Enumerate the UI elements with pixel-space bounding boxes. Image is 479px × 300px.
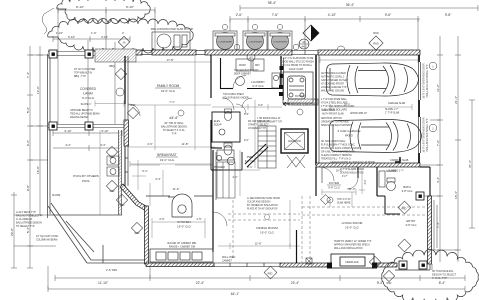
garage north wall — [318, 50, 420, 55]
svg-text:9'-8" CLG: 9'-8" CLG — [402, 190, 413, 193]
svg-text:R6D: R6D — [268, 273, 273, 276]
svg-text:PLATE AT 3/4 AT GROUP OF: PLATE AT 3/4 AT GROUP OF — [247, 208, 278, 211]
svg-text:GARAGE FINISH FLOOR ELEV. AT D: GARAGE FINISH FLOOR ELEV. AT DOOR — [330, 161, 375, 164]
svg-text:SLAB HERE: SLAB HERE — [337, 202, 351, 205]
shelf note below — [223, 94, 249, 100]
family room dim verticals — [128, 56, 215, 150]
svg-text:CONDENSER: CONDENSER — [218, 42, 232, 44]
upstand beam note — [70, 109, 100, 119]
condenser unit 3 — [268, 31, 292, 51]
door tag circle — [178, 110, 184, 116]
kitchen north counter — [146, 195, 170, 197]
condenser slab A — [152, 32, 190, 50]
svg-text:4'-6": 4'-6" — [147, 142, 153, 146]
living room label — [342, 221, 363, 230]
svg-text:5'-6": 5'-6" — [26, 107, 30, 113]
svg-text:4"x7": 4"x7" — [342, 175, 348, 178]
south wall dining windows — [214, 263, 280, 267]
svg-text:19'-0" CLG: 19'-0" CLG — [260, 231, 274, 235]
elevator shaft — [281, 129, 308, 153]
svg-text:9'-4" CLG: 9'-4" CLG — [252, 84, 263, 88]
entry diamond — [398, 201, 411, 214]
svg-text:98'-4": 98'-4" — [268, 1, 277, 5]
jamb blacks — [279, 85, 283, 89]
bottom dim labels — [98, 281, 446, 296]
svg-text:11'-6": 11'-6" — [173, 187, 180, 191]
svg-text:W/ 6X6 - W1.4xW1.4 WWM 2" SAND: W/ 6X6 - W1.4xW1.4 WWM 2" SAND — [321, 147, 360, 150]
svg-text:FLR SLAB MIN 4" THICK CONC: FLR SLAB MIN 4" THICK CONC — [321, 144, 355, 147]
fridge — [217, 150, 234, 160]
window tag circles — [234, 44, 240, 50]
svg-text:1'-0": 1'-0" — [91, 31, 97, 35]
elevator chevron below — [287, 155, 305, 168]
svg-text:AUTH FRONT SLAB: AUTH FRONT SLAB — [322, 113, 344, 116]
svg-text:19'-0" CLG: 19'-0" CLG — [345, 226, 359, 230]
svg-text:OR 6 MIL VAPOR BARRIER ON: OR 6 MIL VAPOR BARRIER ON — [321, 151, 355, 154]
svg-text:RAILING DETAIL: RAILING DETAIL — [70, 116, 89, 119]
breakfast width dim — [130, 161, 211, 167]
car 1 — [327, 63, 419, 96]
kitchen dims — [152, 218, 205, 238]
svg-text:R6D: R6D — [401, 208, 406, 211]
foyer east dim — [359, 170, 365, 194]
outdoor kitchen hatch counter — [95, 49, 136, 62]
svg-text:TEMP TO VERIFY 12" UNDER TYP: TEMP TO VERIFY 12" UNDER TYP — [334, 241, 372, 243]
svg-text:DEEP CABINET: DEEP CABINET — [234, 73, 251, 76]
svg-text:9'-8": 9'-8" — [445, 13, 452, 17]
garage mid notes — [322, 109, 344, 116]
svg-text:1: 1 — [432, 65, 434, 69]
svg-text:xx DECORATIVE HANG HOOD: xx DECORATIVE HANG HOOD — [247, 197, 280, 200]
svg-text:SPECS FOR EACH APPROX: SPECS FOR EACH APPROX — [321, 124, 352, 127]
lanai dims under beam — [53, 130, 122, 151]
svg-text:ENTRY: ENTRY — [406, 219, 415, 223]
svg-text:19'-0" CLG: 19'-0" CLG — [161, 89, 176, 93]
svg-text:4" O.AL. TYP: 4" O.AL. TYP — [432, 277, 447, 280]
bar counter hatch — [288, 99, 318, 105]
svg-text:R6D: R6D — [110, 190, 115, 193]
svg-text:3 CAR GARAGE: 3 CAR GARAGE — [337, 129, 360, 133]
svg-text:20'-0": 20'-0" — [344, 104, 350, 107]
svg-text:ON 4 1/2 PRIOR TO INSTALL: ON 4 1/2 PRIOR TO INSTALL — [281, 64, 313, 67]
svg-text:1 TYP CAR STEM WALL: 1 TYP CAR STEM WALL — [321, 98, 348, 101]
svg-text:21'-0": 21'-0" — [349, 187, 356, 191]
svg-text:5'-10": 5'-10" — [68, 35, 75, 39]
svg-text:WALL SHUT: WALL SHUT — [322, 109, 336, 112]
pantry shelves — [217, 162, 235, 198]
svg-text:COVERED: COVERED — [80, 87, 96, 91]
svg-text:WASH: WASH — [239, 64, 246, 67]
hall dims — [212, 100, 282, 168]
living dims — [330, 192, 352, 207]
fireplace — [331, 254, 374, 268]
svg-text:7'-6": 7'-6" — [436, 140, 440, 146]
svg-text:EQUIP: EQUIP — [214, 124, 222, 127]
right dim labels — [436, 84, 472, 228]
garage door labels — [423, 63, 430, 153]
svg-text:9'-8" CLG: 9'-8" CLG — [328, 186, 340, 190]
R6D diamond top right — [369, 31, 383, 50]
svg-text:4'-10": 4'-10" — [328, 13, 337, 17]
stair note — [248, 120, 270, 130]
svg-text:INSULATED SECTIONAL TYP: INSULATED SECTIONAL TYP — [426, 118, 429, 151]
dim line top row2 — [230, 16, 420, 50]
svg-text:2'-6" MIN: 2'-6" MIN — [106, 268, 117, 272]
south wall living hatched — [280, 263, 328, 267]
svg-text:#4'-6": #4'-6" — [169, 116, 179, 120]
svg-text:R6D: R6D — [135, 232, 140, 235]
laundry door arc + sink — [233, 76, 246, 89]
svg-text:CLEAN COMPACT TERMITE: CLEAN COMPACT TERMITE — [321, 154, 352, 157]
top exterior wall segments — [126, 50, 142, 55]
garage east wall and doors — [419, 55, 421, 167]
svg-text:AT DESIGN TYP: AT DESIGN TYP — [248, 127, 266, 130]
entry steps right — [434, 200, 437, 250]
svg-text:TO SELECT TYP: TO SELECT TYP — [16, 225, 35, 228]
svg-text:21'-4": 21'-4" — [454, 96, 458, 104]
svg-text:WALLS AND CEILING: WALLS AND CEILING — [321, 90, 344, 93]
marker diamond 1A — [118, 36, 129, 47]
svg-text:PATIO: PATIO — [345, 134, 354, 138]
svg-text:BY OWNER W/ INSULATION: BY OWNER W/ INSULATION — [247, 204, 278, 207]
svg-text:CABINET: CABINET — [222, 260, 233, 263]
leader scribble top-left — [42, 8, 54, 34]
foyer — [316, 167, 358, 196]
svg-text:2': 2' — [122, 31, 125, 35]
golf cart bay — [283, 72, 313, 103]
svg-text:OPERATOR TO PROVIDE: OPERATOR TO PROVIDE — [321, 121, 349, 124]
svg-text:CONDENSER: CONDENSER — [273, 42, 287, 44]
svg-text:7'-1": 7'-1" — [169, 100, 175, 104]
elev equip room — [212, 112, 240, 142]
cloud text — [432, 270, 457, 280]
dining note block — [247, 197, 280, 211]
dining dim lines — [218, 200, 300, 249]
svg-text:9'-6": 9'-6" — [385, 13, 392, 17]
family room note — [161, 116, 187, 136]
svg-text:4'-3": 4'-3" — [100, 143, 106, 147]
kitchen west wall — [145, 206, 149, 264]
svg-text:AUTOMATED CLOSER: AUTOMATED CLOSER — [321, 72, 346, 75]
tag circle A3 — [247, 53, 255, 61]
svg-text:18'-4": 18'-4" — [454, 191, 458, 199]
svg-text:RANGE + CABINET DW: RANGE + CABINET DW — [169, 246, 196, 249]
condenser unit 2 — [243, 31, 267, 51]
svg-text:12'-8": 12'-8" — [255, 242, 262, 246]
south wall kitchen segment — [146, 263, 214, 267]
svg-text:2'-6": 2'-6" — [159, 217, 164, 221]
svg-text:8'-10": 8'-10" — [126, 5, 134, 9]
washer dryer — [236, 59, 280, 88]
svg-text:GARAGE SLAB: GARAGE SLAB — [388, 102, 405, 105]
shaft note — [257, 117, 283, 124]
gallery dims — [222, 150, 260, 196]
dining-living separator wall — [296, 230, 298, 263]
svg-text:SLOPE: SLOPE — [52, 194, 61, 197]
svg-text:36'-4": 36'-4" — [346, 3, 355, 7]
diagonal wall breakfast corner — [120, 184, 146, 211]
svg-text:PRE-CONSTRUCTED SLAB ON TOP: PRE-CONSTRUCTED SLAB ON TOP — [151, 28, 194, 31]
svg-text:8'-10": 8'-10" — [76, 5, 84, 9]
svg-text:ADDITION OPTION: ADDITION OPTION — [321, 117, 342, 120]
lanai top beam — [48, 52, 126, 56]
svg-text:DRY: DRY — [255, 65, 260, 67]
svg-text:AUTOMATIC LEVEL 2: AUTOMATIC LEVEL 2 — [321, 76, 345, 79]
kitchen east wall — [213, 150, 216, 252]
west wall family room — [125, 56, 128, 120]
svg-text:DINING ROOM: DINING ROOM — [256, 226, 278, 230]
svg-text:7'-4": 7'-4" — [436, 222, 440, 228]
svg-text:LIVING ROOM: LIVING ROOM — [342, 221, 363, 225]
living tags — [327, 197, 333, 203]
svg-text:POWDER: POWDER — [214, 166, 225, 169]
svg-text:FAMILY ROOM: FAMILY ROOM — [157, 84, 180, 88]
svg-text:TOP AND BOTTOM 36": TOP AND BOTTOM 36" — [234, 69, 259, 72]
garage L bracket — [395, 157, 400, 162]
lanai counter note — [74, 68, 96, 78]
lanai wall tags — [115, 68, 126, 79]
revision cloud top 1 — [57, 0, 150, 24]
garage top dim — [320, 57, 418, 63]
cloud diamonds — [369, 256, 380, 267]
covered lanai label — [80, 87, 96, 100]
garage west wall — [316, 55, 319, 165]
west wall hatched segment — [124, 120, 129, 146]
cloud 1 dims — [58, 7, 155, 124]
svg-text:FOYER: FOYER — [329, 181, 340, 185]
svg-text:R6D: R6D — [373, 31, 378, 35]
svg-text:5'-10": 5'-10" — [101, 129, 108, 133]
svg-text:GOLF CART: GOLF CART — [289, 68, 304, 71]
svg-text:CONDENSER: CONDENSER — [248, 42, 262, 44]
svg-text:POOL BY OTHERS: POOL BY OTHERS — [73, 174, 98, 178]
lanai bottom beam — [48, 125, 124, 128]
svg-text:APPROX SPAN PER FEE SPECS: APPROX SPAN PER FEE SPECS — [334, 244, 370, 247]
breakfast left dims — [132, 160, 146, 190]
family top dim — [128, 59, 211, 65]
lanai west edge — [48, 54, 51, 218]
svg-text:R6D: R6D — [373, 42, 378, 46]
svg-text:37'-4": 37'-4" — [468, 160, 472, 168]
bath label — [402, 185, 413, 193]
door swing arcs — [222, 98, 234, 110]
condenser unit 1 — [213, 31, 237, 51]
section marker diamond A6/A4.2 — [299, 25, 319, 49]
RWD diamond kitchen wall — [131, 222, 142, 233]
entry east walls — [420, 167, 430, 196]
svg-text:19'-0" CLG: 19'-0" CLG — [160, 158, 175, 162]
svg-text:1A: 1A — [122, 42, 125, 45]
cloud 2 dims — [53, 36, 130, 42]
svg-text:11'-8": 11'-8" — [182, 142, 189, 146]
svg-text:BREAKFAST: BREAKFAST — [157, 153, 176, 157]
powder room walls — [211, 148, 242, 170]
left annotation block — [16, 211, 42, 228]
svg-text:9'-8": 9'-8" — [26, 185, 30, 191]
svg-text:LOADED GARAGE TYP: LOADED GARAGE TYP — [321, 86, 347, 89]
pool step diagonals — [48, 203, 146, 263]
dim lines bottom — [48, 266, 465, 292]
column marker X on wall — [306, 258, 312, 264]
bath fixtures — [379, 171, 396, 191]
svg-text:9'-0": 9'-0" — [244, 139, 249, 142]
laundry walls — [220, 56, 284, 100]
svg-text:INSULATED SECTIONAL TYP: INSULATED SECTIONAL TYP — [426, 64, 429, 97]
lanai columns bottom row — [49, 122, 57, 130]
svg-text:FIREPLACE: FIREPLACE — [345, 261, 359, 264]
svg-text:7'-6": 7'-6" — [272, 13, 279, 17]
svg-text:BBQ - TYP: BBQ - TYP — [74, 75, 86, 78]
svg-text:LAUNDRY: LAUNDRY — [251, 80, 265, 84]
svg-text:1" TYP SLAB: 1" TYP SLAB — [385, 112, 400, 115]
clg dashed lines living — [302, 196, 427, 262]
svg-text:R6D: R6D — [387, 282, 392, 285]
svg-text:19'-0" CLG: 19'-0" CLG — [177, 225, 191, 229]
svg-text:A6: A6 — [302, 40, 306, 44]
svg-text:BBQ: BBQ — [109, 65, 114, 68]
svg-text:A4.2: A4.2 — [301, 45, 307, 49]
svg-text:APRON MIN 12": APRON MIN 12" — [350, 112, 367, 115]
svg-text:5'-1": 5'-1" — [244, 112, 249, 116]
lanai columns top row — [49, 50, 57, 58]
dim line top outer 36-4 — [240, 5, 478, 11]
svg-text:2'-6": 2'-6" — [236, 13, 243, 17]
svg-text:GOOD WALL STUCCO FINISH: GOOD WALL STUCCO FINISH — [281, 61, 314, 64]
svg-text:ELEVATOR: ELEVATOR — [288, 140, 301, 143]
arrow below bay — [283, 102, 290, 106]
car 2 — [330, 120, 422, 153]
svg-text:CAR CHARGER OUTLET: CAR CHARGER OUTLET — [321, 79, 349, 82]
svg-text:5'-1": 5'-1" — [142, 169, 148, 173]
svg-text:4 1/2" CTL SLAB ROPE TO BE: 4 1/2" CTL SLAB ROPE TO BE — [281, 57, 314, 60]
pool outline — [119, 130, 122, 215]
svg-text:SLOPED: SLOPED — [386, 170, 396, 173]
svg-text:LANAI: LANAI — [83, 92, 92, 96]
bottom right columns — [399, 261, 407, 269]
kitchen label — [177, 220, 191, 229]
svg-text:BATH: BATH — [403, 185, 410, 189]
svg-text:3'-0": 3'-0" — [258, 103, 263, 107]
svg-text:1'-10": 1'-10" — [56, 31, 63, 35]
top dim labels — [236, 1, 452, 17]
R6D diamonds on west wall — [106, 146, 117, 157]
dining ceiling dashes — [228, 200, 300, 260]
foyer door arc — [320, 167, 334, 181]
cabinet note — [234, 69, 259, 76]
svg-text:23'-4": 23'-4" — [291, 281, 300, 285]
svg-text:AT SIDE AND FRONT: AT SIDE AND FRONT — [321, 83, 345, 86]
dim lines right — [421, 36, 475, 262]
svg-text:8'-4": 8'-4" — [439, 281, 446, 285]
dining room label — [256, 226, 278, 235]
garage south wall — [316, 163, 420, 167]
svg-text:PROVIDE CURB STOP: PROVIDE CURB STOP — [291, 105, 316, 107]
revision cloud bottom right — [382, 249, 479, 300]
svg-text:POOL: POOL — [82, 179, 90, 183]
svg-text:9'-8" CLG: 9'-8" CLG — [406, 224, 417, 227]
svg-text:TOP LINING SHELF: TOP LINING SHELF — [223, 94, 245, 96]
svg-text:SIL SIDE 4 INCH WALL: SIL SIDE 4 INCH WALL — [321, 140, 346, 143]
breakfast dims — [131, 165, 213, 206]
family room label — [157, 84, 180, 93]
lanai mid dim — [95, 101, 124, 107]
svg-text:64'-1": 64'-1" — [231, 292, 240, 296]
family west door arc — [128, 104, 140, 116]
living note — [334, 241, 372, 250]
svg-text:TYP: TYP — [172, 133, 177, 136]
kitchen range arch — [168, 194, 192, 217]
svg-text:1'-5": 1'-5" — [196, 217, 201, 221]
railing bottom right — [395, 264, 430, 270]
svg-text:TREATED FILL - TYP U.N.O.: TREATED FILL - TYP U.N.O. — [321, 158, 352, 161]
stair run — [258, 126, 276, 168]
svg-text:15'-8": 15'-8" — [36, 166, 40, 174]
svg-text:SLOPE 1": SLOPE 1" — [81, 103, 92, 106]
svg-text:29'-8": 29'-8" — [10, 228, 14, 236]
svg-text:12'-6": 12'-6" — [36, 86, 40, 94]
svg-text:11'-10": 11'-10" — [98, 281, 109, 285]
left dim labels — [10, 72, 40, 236]
laundry east jambs — [280, 66, 284, 70]
kitchen island counter — [150, 249, 213, 262]
svg-text:6'-10": 6'-10" — [64, 129, 71, 133]
svg-text:1 HR RATED WALL AT: 1 HR RATED WALL AT — [257, 117, 281, 120]
svg-text:4'-1": 4'-1" — [232, 175, 237, 179]
powder fixtures — [216, 129, 234, 165]
svg-text:8'-1": 8'-1" — [247, 165, 252, 169]
svg-text:WALL OVEN: WALL OVEN — [222, 256, 236, 259]
svg-text:4'-2": 4'-2" — [364, 179, 367, 184]
svg-text:9'-4" CLG: 9'-4" CLG — [82, 96, 94, 100]
breakfast label — [157, 153, 176, 162]
family east wall — [211, 55, 222, 148]
entry column — [416, 192, 424, 200]
svg-text:COLUMN W/ BEAM: COLUMN W/ BEAM — [36, 239, 57, 242]
column note — [36, 235, 59, 242]
garage label — [337, 129, 360, 138]
svg-text:17'-8": 17'-8" — [166, 58, 173, 62]
svg-text:1: 1 — [432, 127, 434, 131]
upper toilet — [224, 104, 246, 121]
svg-text:COLOR AND DESIGN: COLOR AND DESIGN — [247, 201, 271, 204]
svg-text:3'-10": 3'-10" — [101, 35, 108, 39]
west wall window segment lower — [125, 146, 128, 186]
revision cloud top 2 — [48, 18, 193, 53]
svg-text:7'-4": 7'-4" — [26, 72, 30, 78]
svg-text:3'-4": 3'-4" — [155, 177, 161, 181]
svg-text:4'-4": 4'-4" — [436, 177, 440, 183]
svg-text:6'-2": 6'-2" — [26, 140, 30, 146]
diagonal hall wall — [245, 144, 268, 167]
svg-text:ELEVATOR SHAFT TYP: ELEVATOR SHAFT TYP — [257, 121, 283, 124]
bath walls — [377, 167, 400, 214]
svg-text:11'-2": 11'-2" — [436, 84, 440, 92]
garage notes — [281, 57, 314, 67]
laundry label — [251, 80, 265, 88]
svg-text:WALL AND INSTALLATION: WALL AND INSTALLATION — [334, 247, 363, 250]
entry porch steps — [431, 264, 433, 270]
pool label — [73, 174, 98, 183]
planter boxes at bay — [107, 156, 119, 176]
svg-text:R6D: R6D — [120, 204, 125, 207]
tag circles on units — [222, 24, 227, 29]
dim lines left — [11, 46, 56, 268]
svg-text:22'-4": 22'-4" — [196, 281, 205, 285]
bottom diamonds — [264, 266, 277, 279]
kitchen-dining door arc — [213, 212, 227, 226]
svg-text:4'-4": 4'-4" — [65, 143, 71, 147]
